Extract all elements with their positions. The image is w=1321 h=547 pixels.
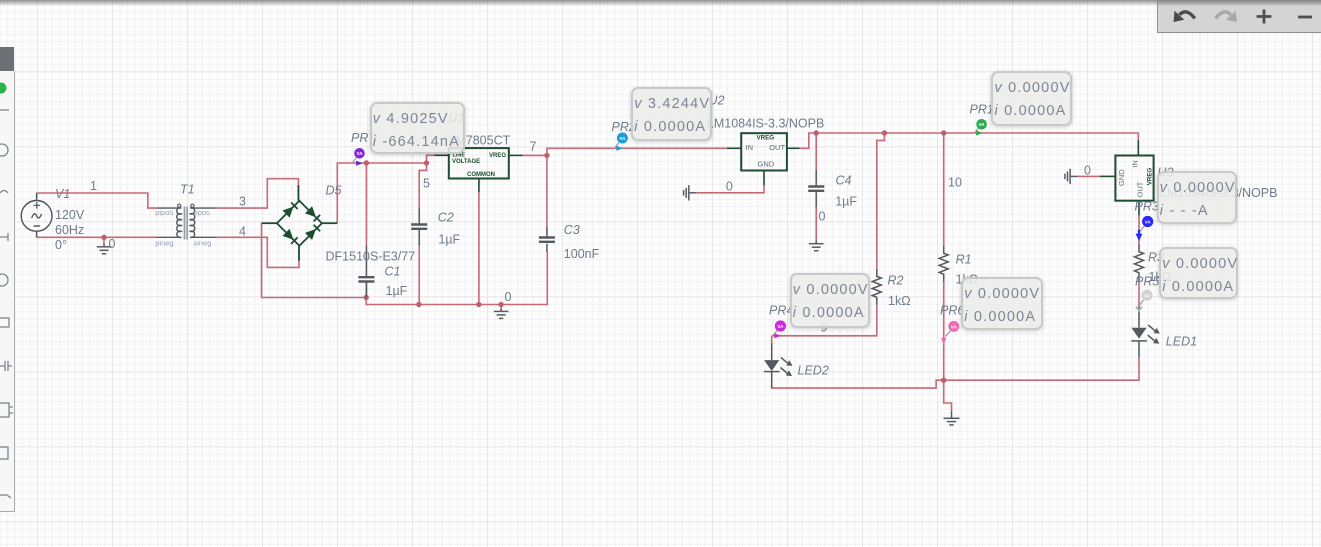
svg-text:VA: VA [777,324,784,329]
svg-text:OUT: OUT [1136,181,1145,197]
svg-text:sipos: sipos [192,208,210,217]
svg-text:COMMON: COMMON [467,172,495,178]
svg-text:PR5: PR5 [1135,275,1159,289]
svg-text:1µF: 1µF [386,284,408,298]
svg-text:C3: C3 [564,223,580,237]
svg-text:VA: VA [1145,220,1152,225]
svg-text:0: 0 [726,180,733,194]
svg-text:IN: IN [1131,160,1140,168]
svg-text:0: 0 [109,237,116,251]
svg-text:0°: 0° [55,238,67,252]
svg-text:C4: C4 [836,174,852,188]
svg-text:VA: VA [951,324,958,329]
svg-text:LED2: LED2 [798,364,829,378]
svg-text:T1: T1 [180,182,195,196]
svg-text:VA: VA [619,136,626,141]
svg-text:0: 0 [505,290,512,304]
svg-text:VA: VA [979,122,986,127]
svg-text:VA: VA [356,151,363,156]
svg-text:C1: C1 [385,265,401,279]
svg-text:GND: GND [1117,169,1126,186]
svg-text:pipos: pipos [155,208,173,217]
svg-text:PR1: PR1 [970,103,994,117]
svg-text:0: 0 [819,209,826,223]
svg-text:4: 4 [239,225,246,239]
svg-text:V1: V1 [55,187,70,201]
svg-text:GND: GND [758,159,775,168]
svg-text:IN: IN [746,143,754,152]
svg-text:VOLTAGE: VOLTAGE [452,159,480,165]
svg-text:60Hz: 60Hz [55,223,84,237]
svg-text:3: 3 [239,194,246,208]
svg-text:1µF: 1µF [835,195,857,209]
svg-text:0: 0 [1084,164,1091,178]
svg-text:1µF: 1µF [438,233,460,247]
svg-text:LM1084IS-3.3/NOPB: LM1084IS-3.3/NOPB [707,117,824,131]
svg-text:120V: 120V [55,208,85,222]
svg-text:R1: R1 [956,253,972,267]
svg-text:7: 7 [530,140,537,154]
svg-text:100nF: 100nF [564,247,600,261]
svg-text:OUT: OUT [769,143,785,152]
svg-text:VREG: VREG [1147,167,1154,185]
svg-text:1: 1 [90,179,97,193]
svg-text:VREG: VREG [757,134,775,141]
svg-text:VREG: VREG [489,153,506,159]
svg-text:pineg: pineg [155,238,173,247]
svg-text:D5: D5 [326,184,342,198]
svg-text:PR3: PR3 [1135,200,1159,214]
svg-text:R2: R2 [888,274,904,288]
svg-text:LED1: LED1 [1166,335,1197,349]
svg-text:5: 5 [423,177,430,191]
svg-text:sineg: sineg [194,238,212,247]
svg-text:DF1510S-E3/77: DF1510S-E3/77 [326,250,416,264]
svg-text:C2: C2 [438,211,454,225]
svg-text:1kΩ: 1kΩ [888,294,911,308]
svg-text:VA: VA [1144,293,1151,298]
svg-text:10: 10 [948,176,962,190]
